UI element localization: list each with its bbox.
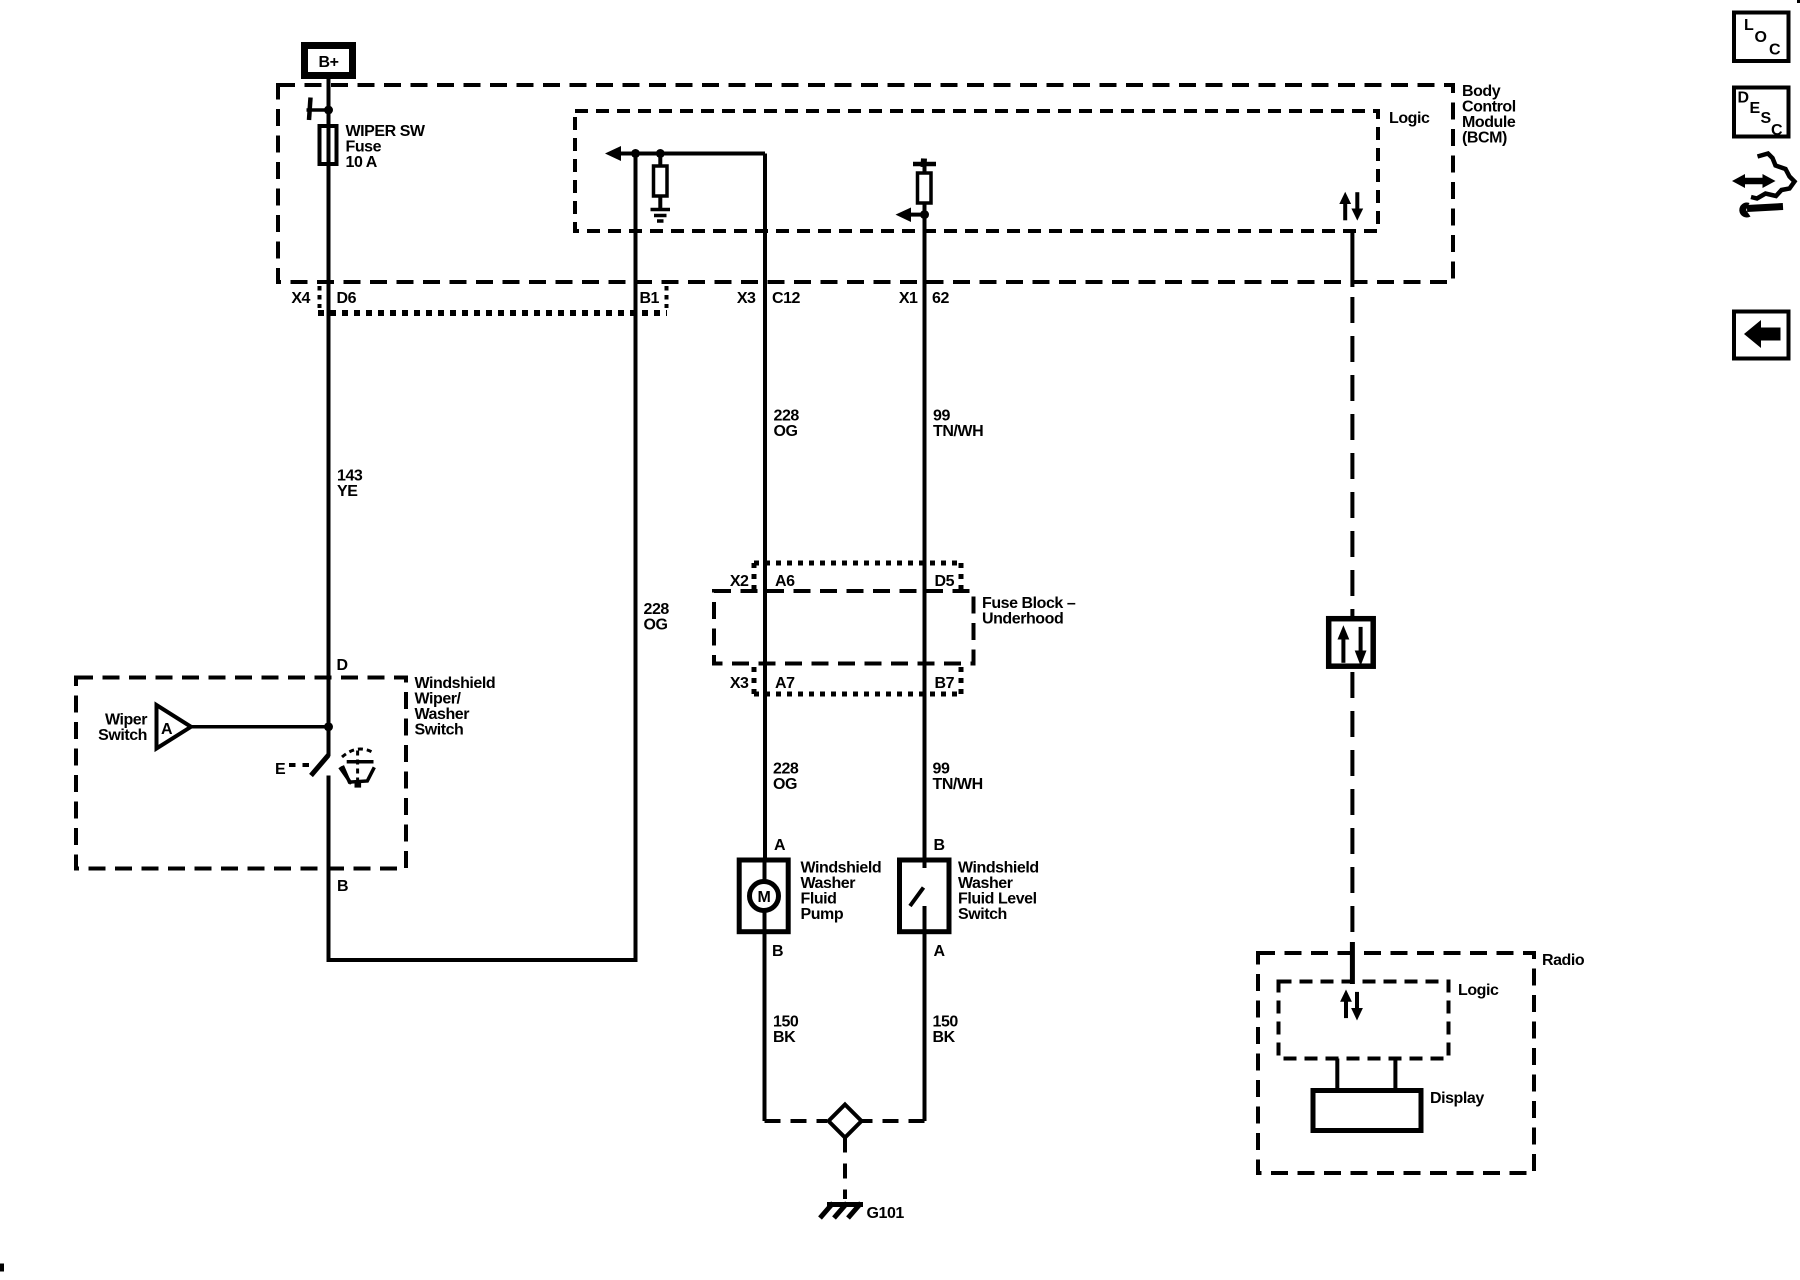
- svg-text:Module: Module: [1462, 114, 1516, 131]
- wire label 150 BK left: [773, 1014, 799, 1047]
- dashed wire pump to splice: [765, 1119, 828, 1123]
- DESC button: [1734, 88, 1789, 140]
- resistor in BCM logic: [654, 154, 668, 209]
- svg-text:62: 62: [932, 290, 949, 307]
- switch blade: [311, 755, 329, 776]
- svg-text:Washer: Washer: [958, 875, 1013, 892]
- wiper switch buffer triangle A: [157, 705, 192, 749]
- connector row dotted bottom edge X4..B1: [318, 310, 667, 316]
- svg-text:X3: X3: [730, 675, 749, 692]
- B+ power box: [305, 46, 353, 76]
- wire B+ feed down to wiper switch (143 YE): [327, 79, 331, 756]
- fuse label WIPER SW Fuse 10 A: [346, 123, 426, 171]
- radio dashed box: [1258, 953, 1534, 1173]
- junction dot switch common: [324, 722, 333, 731]
- svg-text:150: 150: [933, 1014, 959, 1031]
- svg-text:Windshield: Windshield: [801, 860, 882, 877]
- Fuse Block Underhood label: [982, 595, 1076, 628]
- serial data link box: [1329, 619, 1374, 667]
- page artifact speck top right: [1797, 0, 1800, 3]
- bus tap symbol at B+: [307, 98, 329, 121]
- serial data wire solid below arrows: [1350, 229, 1354, 287]
- svg-text:S: S: [1761, 110, 1772, 127]
- wiper/washer switch dashed box: [76, 678, 406, 869]
- svg-text:228: 228: [644, 601, 670, 618]
- svg-text:L: L: [1744, 17, 1754, 34]
- svg-text:B7: B7: [935, 675, 955, 692]
- svg-text:BK: BK: [773, 1029, 796, 1046]
- fuse block lower pin labels X3 A7 B7: [730, 675, 955, 692]
- svg-text:Logic: Logic: [1458, 982, 1499, 999]
- svg-text:YE: YE: [337, 483, 358, 500]
- svg-text:G101: G101: [867, 1205, 905, 1222]
- svg-text:B1: B1: [639, 290, 659, 307]
- svg-text:228: 228: [774, 408, 800, 425]
- svg-text:150: 150: [773, 1014, 799, 1031]
- svg-text:E: E: [1750, 100, 1761, 117]
- wire label 143 YE: [337, 468, 363, 501]
- svg-text:WIPER SW: WIPER SW: [346, 123, 426, 140]
- svg-text:Washer: Washer: [801, 875, 856, 892]
- svg-text:99: 99: [933, 761, 950, 778]
- page artifact speck bottom left: [0, 1264, 4, 1272]
- svg-text:D: D: [337, 657, 348, 674]
- connector separator X4|D6: [318, 286, 322, 308]
- wiper icon: [340, 749, 375, 788]
- junction dot B1 wire: [631, 149, 640, 158]
- svg-text:BK: BK: [933, 1029, 956, 1046]
- serial data arrows in BCM logic: [1339, 192, 1363, 221]
- svg-text:Windshield: Windshield: [958, 860, 1039, 877]
- svg-text:O: O: [1755, 29, 1767, 46]
- radio logic dashed box: [1279, 982, 1449, 1059]
- serial data dashed wire lower: [1350, 672, 1354, 942]
- svg-text:X4: X4: [291, 290, 310, 307]
- junction dot 62: [920, 210, 929, 219]
- logic horizontal wire with left arrow: [605, 146, 765, 161]
- svg-text:B: B: [337, 878, 348, 895]
- pump label Windshield Washer Fluid Pump: [801, 860, 882, 924]
- fuse block underhood dashed box: [714, 591, 974, 664]
- svg-text:A: A: [934, 943, 946, 960]
- svg-text:Display: Display: [1430, 1090, 1484, 1107]
- wire label 150 BK right: [933, 1014, 959, 1047]
- svg-text:Body: Body: [1462, 83, 1501, 100]
- svg-text:143: 143: [337, 468, 363, 485]
- svg-text:Radio: Radio: [1542, 952, 1585, 969]
- motor circle M: [750, 882, 779, 911]
- junction dot at tap: [324, 106, 333, 115]
- wire B1 to switch bottom (228 OG): [329, 154, 636, 961]
- svg-text:Fuse: Fuse: [346, 139, 382, 156]
- level switch box: [900, 860, 950, 932]
- fuse block lower connector dotted box X3: [754, 667, 961, 694]
- wire label 228 OG (B1): [644, 601, 670, 634]
- svg-text:Washer: Washer: [415, 706, 470, 723]
- fuse block upper connector dotted box X2: [754, 563, 961, 590]
- wire 62 down to level switch (99 TN/WH): [923, 203, 927, 868]
- splice diamond: [829, 1105, 862, 1138]
- svg-text:A6: A6: [775, 573, 795, 590]
- display box: [1313, 1091, 1421, 1131]
- Wiper Switch label: [98, 712, 147, 745]
- svg-text:Switch: Switch: [415, 722, 464, 739]
- svg-text:Pump: Pump: [801, 906, 844, 923]
- svg-text:C: C: [1771, 122, 1783, 139]
- svg-text:Switch: Switch: [958, 906, 1007, 923]
- fuse block upper pin labels X2 A6 D5: [730, 573, 955, 590]
- svg-text:B: B: [772, 943, 783, 960]
- svg-text:Fluid: Fluid: [801, 891, 837, 908]
- connector pin labels X1 62: [899, 290, 950, 307]
- svg-text:X3: X3: [737, 290, 756, 307]
- wire label 228 OG (C12): [774, 408, 800, 441]
- wire triangle to switch common: [191, 725, 329, 729]
- svg-text:A7: A7: [775, 675, 795, 692]
- wire label 99 TN/WH lower: [933, 761, 983, 794]
- serial data dashed wire upper: [1350, 297, 1354, 616]
- switch terminal E with dashed link: [275, 761, 311, 778]
- svg-text:E: E: [275, 761, 286, 778]
- svg-text:Underhood: Underhood: [982, 611, 1063, 628]
- serial data arrows in radio logic: [1340, 990, 1363, 1021]
- BCM dashed box: [278, 85, 1453, 282]
- svg-text:10 A: 10 A: [346, 154, 378, 171]
- svg-text:Wiper: Wiper: [105, 712, 147, 729]
- svg-text:D: D: [1738, 90, 1749, 107]
- dashed wire splice to ground: [843, 1138, 847, 1200]
- ground G101 symbol: [820, 1203, 863, 1218]
- svg-text:Control: Control: [1462, 99, 1516, 116]
- washer pump box: [739, 860, 788, 932]
- ground symbol in BCM logic: [651, 210, 671, 222]
- svg-text:Wiper/: Wiper/: [415, 691, 462, 708]
- junction dot resistor: [656, 149, 665, 158]
- svg-text:Windshield: Windshield: [415, 675, 496, 692]
- svg-text:C12: C12: [772, 290, 801, 307]
- back arrow button: [1734, 312, 1789, 359]
- wire label 99 TN/WH upper: [933, 408, 983, 441]
- svg-text:X1: X1: [899, 290, 918, 307]
- svg-text:(BCM): (BCM): [1462, 130, 1507, 147]
- bus tap symbol at 62 feed: [913, 159, 936, 168]
- svg-text:Switch: Switch: [98, 727, 147, 744]
- Windshield Wiper/Washer Switch label: [415, 675, 496, 739]
- wire C12 down to washer pump (228 OG): [763, 154, 767, 861]
- BCM label Body Control Module (BCM): [1462, 83, 1516, 147]
- svg-text:B: B: [934, 837, 945, 854]
- svg-text:Logic: Logic: [1389, 110, 1430, 127]
- svg-text:228: 228: [773, 761, 799, 778]
- washer pump wire through box: [763, 860, 767, 1121]
- connector separator right of B1: [665, 286, 669, 308]
- svg-text:B+: B+: [319, 54, 339, 71]
- wire label 228 OG lower: [773, 761, 799, 794]
- svg-text:D6: D6: [337, 290, 357, 307]
- dashed wire level switch to splice: [862, 1119, 925, 1123]
- quick link icon arrows and wrench: [1732, 154, 1795, 218]
- svg-text:X2: X2: [730, 573, 749, 590]
- svg-text:OG: OG: [774, 423, 798, 440]
- fuse for 62 circuit: [918, 164, 932, 203]
- wire switch B down to joint: [327, 776, 331, 963]
- level switch label Windshield Washer Fluid Level Switch: [958, 860, 1039, 924]
- svg-text:OG: OG: [644, 617, 668, 634]
- svg-text:Fuse Block –: Fuse Block –: [982, 595, 1076, 612]
- svg-text:OG: OG: [773, 776, 797, 793]
- LOC button: [1734, 13, 1789, 62]
- svg-text:A: A: [774, 837, 786, 854]
- svg-text:C: C: [1769, 42, 1781, 59]
- fuse WIPER SW 10A: [320, 126, 337, 164]
- solid stub into radio logic: [1350, 942, 1355, 984]
- svg-text:D5: D5: [935, 573, 955, 590]
- svg-text:TN/WH: TN/WH: [933, 423, 983, 440]
- left arrow at 62 junction: [896, 208, 925, 223]
- svg-text:Fluid Level: Fluid Level: [958, 891, 1037, 908]
- level switch lower wire: [923, 906, 927, 1121]
- connector pin labels X3 C12: [737, 290, 801, 307]
- svg-text:A: A: [161, 721, 173, 738]
- connector pin labels X4 D6: [291, 290, 356, 307]
- display connector wires: [1337, 1059, 1395, 1090]
- level switch blade: [910, 888, 924, 907]
- BCM logic dashed box: [575, 111, 1378, 231]
- svg-text:TN/WH: TN/WH: [933, 776, 983, 793]
- svg-text:M: M: [758, 889, 771, 906]
- svg-text:99: 99: [933, 408, 950, 425]
